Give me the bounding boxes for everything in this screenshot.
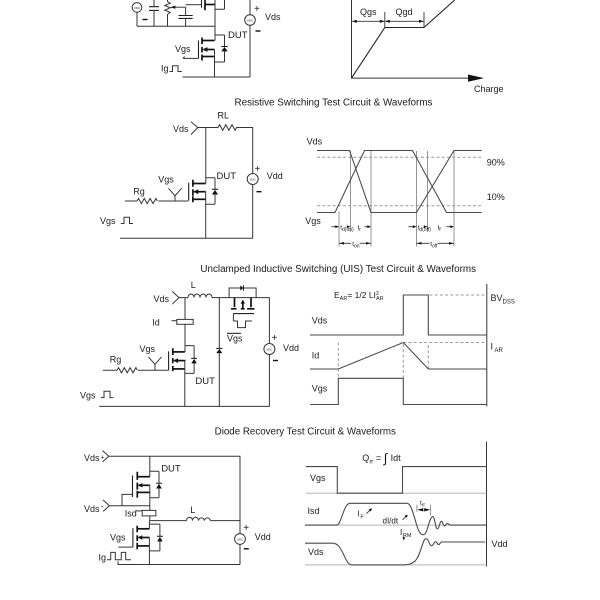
marker verticals (timing)	[339, 151, 454, 247]
wire drain vertical	[205, 128, 207, 184]
probe chevron Vds (UIS)	[172, 291, 179, 304]
transistor DUT (UIS)	[169, 348, 186, 406]
svg-text:Vds: Vds	[84, 504, 100, 514]
svg-text:Isd: Isd	[308, 506, 320, 516]
Qgd annotation	[385, 7, 424, 27]
transistor DUT (resistive)	[189, 180, 206, 239]
anti-parallel diode branch (clamp)	[229, 285, 256, 297]
wire top rail (resistive)	[198, 128, 253, 174]
resistor Rg (UIS)	[117, 368, 137, 373]
svg-text:d(on): d(on)	[342, 227, 354, 233]
timing t_d(on)	[332, 224, 355, 233]
waveform Id trace (UIS)	[310, 343, 487, 370]
svg-text:Diode Recovery Test Circuit &: Diode Recovery Test Circuit & Waveforms	[215, 427, 396, 438]
gate charge chart axes	[352, 0, 485, 82]
label Vgs pulse source (UIS)	[80, 391, 114, 401]
body diode of lower FET	[149, 524, 162, 551]
timing t_r	[358, 224, 372, 233]
svg-text:Vgs: Vgs	[100, 216, 116, 226]
body diode of upper DUT	[150, 471, 162, 498]
dashed BV level	[430, 294, 487, 296]
inductor L (UIS)	[188, 294, 212, 298]
wire bottom rail (gate charge)	[183, 76, 251, 78]
svg-text:+: +	[254, 4, 260, 15]
svg-text:Vgs: Vgs	[305, 216, 321, 226]
svg-text:VDC: VDC	[247, 19, 254, 23]
svg-text:Ig: Ig	[161, 64, 169, 74]
svg-text:L: L	[191, 280, 196, 290]
svg-text:Vds: Vds	[84, 453, 100, 463]
svg-text:Ig: Ig	[99, 553, 107, 563]
svg-text:DUT: DUT	[161, 464, 181, 475]
wire gate drive to upper FET	[186, 4, 202, 6]
wire bottom rail (diode recovery)	[118, 561, 240, 564]
svg-text:DUT: DUT	[228, 30, 248, 41]
svg-text:Vgs: Vgs	[158, 175, 174, 185]
waveform Vgs trace (resistive)	[317, 151, 482, 213]
svg-text:Vds: Vds	[308, 547, 324, 557]
waveform Vds trace with ringing to Vdd	[305, 539, 485, 565]
svg-text:Unclamped Inductive Switching: Unclamped Inductive Switching (UIS) Test…	[200, 264, 476, 275]
voltage source Vds (gate charge)	[245, 0, 261, 77]
transistor lower FET (diode recovery)	[133, 521, 150, 565]
svg-text:VDC: VDC	[250, 178, 257, 182]
wire gate (UIS)	[103, 369, 169, 371]
svg-text:Vdd: Vdd	[492, 539, 508, 549]
label Isd with sense box	[125, 509, 156, 521]
label Vds+ probe	[84, 451, 109, 463]
svg-text:Vds: Vds	[312, 315, 328, 325]
timing t_f	[438, 224, 455, 233]
gate-source tie loop	[122, 494, 133, 505]
transistor clamp FET (horizontal)	[231, 298, 255, 314]
svg-text:dI/dt: dI/dt	[383, 517, 399, 526]
label Vgs pulse source (resistive)	[100, 216, 133, 226]
waveform Vds trace (UIS)	[310, 295, 487, 335]
svg-text:VDC: VDC	[134, 6, 141, 10]
svg-text:Vgs: Vgs	[110, 533, 126, 543]
svg-text:Vds: Vds	[154, 294, 170, 304]
svg-text:Vgs: Vgs	[312, 384, 328, 394]
svg-text:+: +	[255, 164, 261, 175]
wire Vds- to source node	[109, 505, 149, 507]
dashed vertical markers (UIS)	[338, 343, 428, 379]
waveform Vgs trace (UIS)	[310, 378, 487, 404]
svg-text:Vds: Vds	[307, 137, 323, 147]
transistor upper FET (cut off at top)	[202, 0, 225, 10]
svg-text:DUT: DUT	[217, 171, 237, 182]
label Vds- probe	[84, 500, 109, 514]
svg-text:RL: RL	[218, 111, 230, 121]
svg-text:Isd: Isd	[125, 509, 137, 519]
svg-text:Vgs: Vgs	[310, 473, 326, 483]
timing t_rr	[417, 500, 431, 516]
svg-text:Vds: Vds	[173, 124, 189, 134]
svg-text:DUT: DUT	[195, 376, 215, 387]
svg-text:Vgs: Vgs	[80, 391, 96, 401]
svg-text:d(off): d(off)	[419, 227, 431, 233]
svg-text:off: off	[432, 244, 438, 250]
svg-text:Resistive Switching Test Circu: Resistive Switching Test Circuit & Wavef…	[235, 98, 433, 109]
label Ig with pulse	[161, 64, 182, 74]
body diode of DUT (gate charge)	[215, 35, 228, 62]
Qgs annotation	[352, 7, 385, 27]
body diode of DUT (UIS)	[185, 346, 197, 374]
svg-text:Qgd: Qgd	[396, 7, 413, 17]
svg-text:VDC: VDC	[237, 538, 244, 542]
svg-text:Vgs: Vgs	[140, 344, 156, 354]
resistor (gate pot)	[165, 0, 171, 26]
wire gate (resistive)	[125, 200, 188, 202]
wire bottom rail (resistive)	[120, 237, 253, 239]
waveform Vgs trace (diode recovery)	[306, 467, 487, 494]
gray reference Vgs level	[306, 492, 487, 494]
svg-text:Vgs: Vgs	[227, 334, 243, 344]
inductor L (diode recovery)	[187, 517, 211, 520]
label Vgs-bar	[227, 333, 243, 343]
voltage source Vdd (resistive)	[247, 164, 261, 238]
label I_RM with down arrow	[400, 528, 412, 541]
probe Y Vgs (resistive)	[169, 188, 182, 201]
svg-text:Charge: Charge	[474, 84, 504, 94]
pot wiper arrow	[170, 6, 185, 9]
svg-text:Vgs: Vgs	[175, 44, 191, 54]
label I_F with arrow	[358, 508, 373, 520]
svg-text:rr: rr	[422, 502, 426, 508]
voltage source VDC gate supply	[132, 3, 147, 27]
gray reference Vds low level	[305, 564, 487, 566]
voltage source Vdd (diode recovery)	[235, 523, 250, 565]
waveform axis (diode recovery)	[486, 442, 488, 567]
wire gate-drive bottom rail	[137, 25, 215, 27]
transistor DUT (gate charge)	[199, 38, 215, 78]
wire top rail (diode recovery)	[109, 456, 240, 533]
svg-text:L: L	[190, 505, 195, 515]
probe Y Vgs (UIS)	[149, 357, 162, 370]
svg-text:Id: Id	[152, 318, 160, 328]
capacitor C1	[149, 0, 159, 26]
freewheel diode mid branch	[216, 298, 222, 407]
timing t_on	[339, 241, 371, 250]
svg-text:on: on	[354, 244, 360, 250]
svg-text:10%: 10%	[487, 192, 505, 202]
wire Vgs probe to gate	[183, 57, 199, 59]
svg-text:Qgs: Qgs	[360, 7, 377, 17]
dashed I_AR level	[403, 342, 487, 344]
svg-text:Vdd: Vdd	[283, 343, 299, 353]
transistor DUT upper (diode recovery)	[133, 456, 150, 510]
svg-text:Id: Id	[312, 350, 320, 360]
svg-text:+: +	[272, 333, 278, 344]
wire top rail (UIS)	[179, 297, 269, 299]
wire middle rail (diode recovery)	[150, 520, 240, 522]
label dI/dt with arrow	[383, 515, 408, 526]
dashed 10% level	[317, 205, 483, 207]
svg-text:Rg: Rg	[110, 355, 122, 365]
svg-text:+: +	[243, 523, 249, 534]
capacitor C2	[179, 7, 193, 26]
gray reference Isd zero	[305, 524, 487, 526]
gate charge curve	[352, 0, 455, 78]
wire gate lead	[118, 546, 133, 548]
probe chevron Vds	[191, 122, 198, 135]
waveform axis (UIS)	[486, 284, 488, 406]
dashed 90% level	[317, 156, 483, 158]
gate lead and inverted pulse (clamp Vgs-bar)	[233, 314, 252, 328]
wire main drain vertical	[214, 0, 216, 41]
svg-text:Vdd: Vdd	[255, 532, 271, 542]
svg-text:90%: 90%	[487, 158, 505, 168]
voltage source Vdd (UIS)	[264, 298, 278, 407]
svg-text:Vds: Vds	[265, 12, 281, 22]
waveform Isd trace with recovery ringing	[305, 503, 487, 534]
waveform Vds trace (resistive)	[317, 151, 482, 213]
svg-text:VDC: VDC	[266, 348, 273, 352]
resistor RL	[218, 125, 237, 131]
resistor Rg (resistive)	[137, 198, 157, 203]
svg-text:Rg: Rg	[133, 187, 145, 197]
svg-text:-: -	[101, 502, 104, 511]
wire drain branch with current sense box	[172, 298, 194, 352]
label Ig with double pulse	[99, 552, 132, 562]
timing t_off	[417, 241, 455, 250]
timing t_d(off)	[409, 224, 432, 233]
svg-text:Vdd: Vdd	[267, 171, 283, 181]
wire bottom rail (UIS)	[99, 405, 269, 407]
body diode of DUT (resistive)	[206, 178, 219, 205]
